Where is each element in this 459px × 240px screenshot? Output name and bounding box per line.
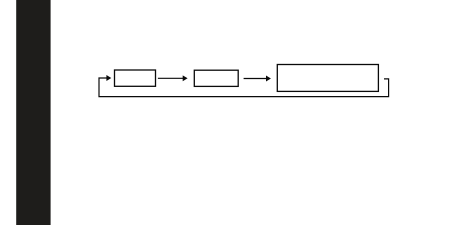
- box 3 (large process block): [277, 65, 378, 92]
- feedback loop box3 -> box1: [99, 75, 389, 97]
- box 2 (small process block): [194, 70, 238, 86]
- arrow box2 -> box3: [244, 76, 271, 82]
- left dark sidebar: [16, 0, 50, 225]
- arrow box1 -> box2: [158, 75, 188, 81]
- box 1 (small process block): [115, 70, 156, 86]
